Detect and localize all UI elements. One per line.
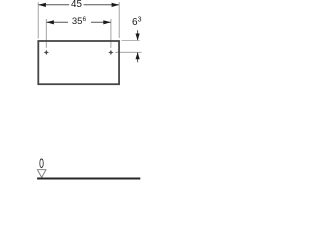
dimension line 35.6 right segment (91, 21, 111, 23)
dimension line below up arrow of dim 6.3 (137, 52, 139, 62)
arrowhead right of dim 35.6 (103, 20, 111, 24)
dimension line 45 right segment (84, 4, 119, 6)
cabinet outline (38, 41, 119, 84)
arrowhead left of dim 35.6 (46, 20, 54, 24)
extension line upper of dim 6.3 (122, 39, 140, 41)
arrowhead right of dim 45 (112, 3, 120, 7)
datum level triangle (37, 170, 46, 178)
arrowhead up of dim 6.3 (136, 52, 140, 59)
arrowhead left of dim 45 (38, 3, 46, 7)
fixing point left (4-point star) (44, 50, 49, 56)
extension line lower of dim 6.3 (115, 51, 141, 53)
dimension line above down arrow of dim 6.3 (137, 30, 139, 40)
dimension line 35.6 left segment (47, 21, 69, 23)
floor line (37, 178, 140, 180)
extension line left of dim 35.6 (45, 19, 47, 48)
extension line left of dim 45 (37, 2, 39, 38)
fixing point right (4-point star) (108, 50, 113, 56)
dimension line 45 left segment (39, 4, 70, 6)
extension line right of dim 45 (118, 2, 120, 38)
extension line right of dim 35.6 (110, 19, 112, 48)
arrowhead down of dim 6.3 (136, 34, 140, 41)
svg-text:45: 45 (71, 0, 82, 10)
